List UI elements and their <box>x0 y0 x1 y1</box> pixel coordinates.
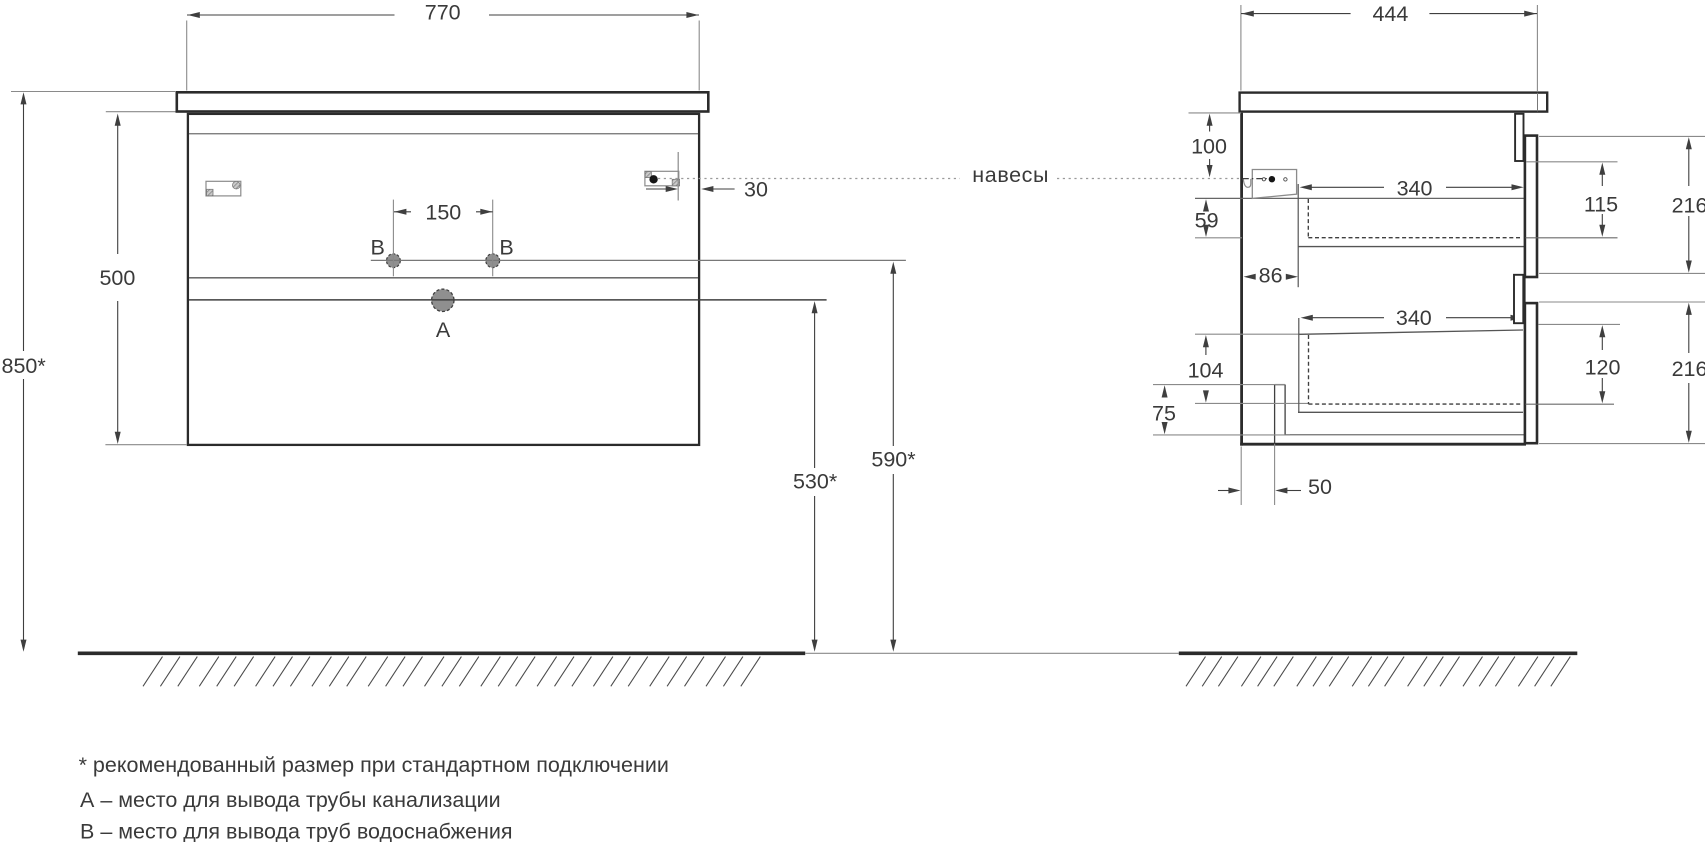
svg-text:86: 86 <box>1259 264 1283 288</box>
svg-text:В – место для вывода труб водо: В – место для вывода труб водоснабжения <box>80 820 513 842</box>
svg-text:В: В <box>499 236 513 260</box>
svg-text:А: А <box>436 318 451 342</box>
svg-text:150: 150 <box>425 200 461 224</box>
svg-text:500: 500 <box>99 266 135 290</box>
svg-text:444: 444 <box>1372 2 1408 26</box>
svg-text:А – место для вывода трубы кан: А – место для вывода трубы канализации <box>80 788 501 812</box>
svg-text:75: 75 <box>1152 401 1176 425</box>
svg-text:120: 120 <box>1585 356 1621 380</box>
svg-text:216: 216 <box>1672 194 1705 218</box>
svg-text:59: 59 <box>1195 209 1219 233</box>
svg-text:30: 30 <box>744 178 768 202</box>
svg-text:770: 770 <box>425 1 461 25</box>
svg-text:340: 340 <box>1397 176 1433 200</box>
svg-text:В: В <box>370 236 384 260</box>
svg-text:530*: 530* <box>793 469 838 493</box>
svg-text:216: 216 <box>1672 357 1705 381</box>
svg-text:590*: 590* <box>871 448 916 472</box>
svg-text:100: 100 <box>1191 134 1227 158</box>
svg-text:104: 104 <box>1188 359 1224 383</box>
svg-text:340: 340 <box>1396 306 1432 330</box>
svg-text:навесы: навесы <box>972 163 1049 187</box>
svg-text:* рекомендованный размер при с: * рекомендованный размер при стандартном… <box>79 753 669 777</box>
svg-text:850*: 850* <box>2 354 47 378</box>
svg-text:50: 50 <box>1308 475 1332 499</box>
svg-text:115: 115 <box>1584 193 1618 217</box>
